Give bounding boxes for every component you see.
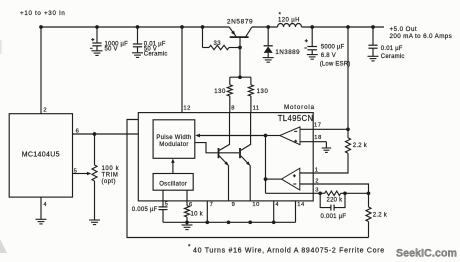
wire: trim top lead — [94, 134, 96, 165]
U2A plus mark — [294, 140, 297, 142]
wire: U2A pin 17 line — [300, 128, 348, 130]
svg-text:SeekIC.com: SeekIC.com — [396, 247, 457, 259]
svg-text:Modulator: Modulator — [159, 142, 188, 148]
junction pin12 drop — [180, 25, 184, 29]
transistor Q1 collector — [246, 27, 252, 36]
svg-text:1: 1 — [315, 168, 318, 174]
capacitor C1 1000uF 50V — [96, 27, 98, 43]
junction C1 — [95, 25, 99, 29]
svg-text:8: 8 — [231, 105, 234, 111]
wire: splitter bar — [230, 76, 251, 78]
svg-text:17: 17 — [314, 122, 322, 128]
transistor Q3 emitter to pin 10 — [241, 156, 250, 166]
wire: node B to node C — [345, 192, 369, 194]
wire: R3 top lead — [250, 77, 252, 85]
svg-text:2: 2 — [315, 178, 318, 184]
node input corner — [39, 25, 43, 29]
scan artifact left edge — [0, 40, 2, 54]
ground under C3 — [307, 54, 318, 56]
wire: R2 top lead — [229, 77, 231, 85]
svg-text:0.001 µF: 0.001 µF — [321, 214, 347, 220]
svg-text:220 k: 220 k — [327, 197, 344, 203]
junction 10k/ground — [185, 220, 189, 224]
wire: PWM output jog to bases — [195, 143, 218, 153]
block: Pulse Width Modulator box — [153, 120, 195, 159]
wire: U2A pin 18 line — [300, 141, 326, 143]
svg-text:0.005 µF: 0.005 µF — [132, 207, 158, 213]
svg-text:0.01 µF: 0.01 µF — [381, 46, 403, 52]
svg-text:(opt): (opt) — [102, 179, 116, 185]
wire: pin 5 lead — [162, 201, 164, 207]
C3 plus sign — [305, 40, 308, 42]
svg-text:Pulse Width: Pulse Width — [156, 135, 191, 141]
node A 220k left — [318, 191, 322, 195]
ground under U1 pin 4 — [36, 218, 47, 220]
wire: comparator bus vertical — [265, 136, 267, 194]
diode D1 1N3889 — [267, 27, 269, 46]
transistor Q1 emitter — [229, 27, 236, 36]
wire: osc pin5 inside — [162, 190, 164, 201]
block: Oscillator box — [153, 174, 193, 191]
svg-text:Oscillator: Oscillator — [159, 181, 187, 187]
U2B plus mark — [293, 175, 296, 177]
transistor Q2 base bar — [218, 148, 220, 158]
wire: bottom ground rail — [163, 221, 296, 223]
svg-text:130: 130 — [257, 89, 269, 95]
ground under pin 18 — [322, 147, 332, 149]
transistor Q2 collector to pin 8 — [219, 113, 229, 151]
capacitor C2 0.01uF 50V ceramic — [137, 27, 139, 44]
wire: rail to TL495 pin 12 — [181, 27, 183, 113]
resistor R2 130 — [227, 85, 232, 96]
wire: U1 pin 6 reference line — [73, 133, 139, 135]
inductor L1 120uH — [278, 24, 302, 28]
svg-text:Ceramic: Ceramic — [381, 54, 405, 60]
junction switch node D1 — [266, 25, 270, 29]
U2A output wire — [266, 135, 280, 137]
ground on bottom rail — [186, 222, 188, 225]
svg-text:2.2 k: 2.2 k — [353, 143, 368, 149]
arrow oscillator to PWM — [172, 161, 174, 174]
wire: base link Q2-Q3 — [219, 152, 240, 154]
svg-text:TRIM: TRIM — [102, 173, 119, 179]
svg-text:TL495CN: TL495CN — [278, 114, 314, 123]
svg-text:10: 10 — [252, 202, 260, 208]
wire: pin 3 line from bus — [266, 192, 325, 194]
wire: R3 bottom lead to pin 11 — [250, 96, 252, 113]
IC U2 TL495CN box — [138, 113, 313, 201]
ground under C1 — [92, 50, 103, 52]
wire: comparator output bus into PWM — [197, 135, 266, 137]
op-amp U2A error amp top — [280, 127, 300, 145]
wire: R6 top lead — [368, 193, 370, 207]
transistor Q1 base bar — [230, 36, 249, 38]
wire: rail segment collector to inductor — [252, 26, 278, 28]
U2B minus mark — [293, 183, 296, 185]
wire: +5V feedback drop — [347, 27, 349, 129]
junction C3 — [310, 25, 314, 29]
svg-text:50 V: 50 V — [105, 47, 118, 53]
scan artifact bottom-left corner — [0, 239, 7, 253]
node base splitter — [238, 75, 242, 79]
wire: R2 bottom lead to pin 8 — [229, 96, 231, 113]
junction pin4 — [272, 220, 276, 224]
svg-text:10 k: 10 k — [191, 212, 204, 218]
svg-text:18: 18 — [314, 135, 322, 141]
svg-text:+10 to +30 In: +10 to +30 In — [20, 10, 66, 17]
svg-text:Ceramic: Ceramic — [144, 52, 168, 58]
resistor R3 130 — [248, 85, 253, 96]
wire: pin 14 stub — [295, 201, 297, 222]
node op2 output junction — [264, 177, 268, 181]
junction pin10 — [248, 220, 252, 224]
svg-text:11: 11 — [253, 105, 260, 111]
svg-text:6: 6 — [189, 202, 192, 208]
svg-text:2: 2 — [43, 107, 46, 113]
node trim top — [93, 132, 97, 136]
C3 minus sign — [304, 47, 307, 49]
svg-text:1N3889: 1N3889 — [275, 49, 300, 56]
svg-text:9: 9 — [232, 202, 235, 208]
svg-text:MC1404U5: MC1404U5 — [22, 151, 60, 158]
svg-text:2.2 k: 2.2 k — [373, 213, 388, 219]
U2A minus mark — [294, 130, 297, 132]
wire: input drop to MC1404U5 pin 2 — [40, 27, 42, 114]
wire: R4 top lead — [347, 129, 349, 138]
svg-text:2N5879: 2N5879 — [227, 19, 253, 26]
wire: R6 bottom to return line — [368, 222, 370, 238]
resistor R6 2.2k — [366, 207, 371, 222]
U2B output wire — [266, 178, 282, 180]
IC U1 MC1404U5 box — [9, 114, 72, 197]
wire: R1 left lead — [203, 47, 210, 49]
svg-text:40 Turns #16 Wire, Arnold A 89: 40 Turns #16 Wire, Arnold A 894075-2 Fer… — [193, 247, 385, 254]
wire: U1 pin 4 to ground — [40, 197, 42, 219]
svg-text:33: 33 — [214, 41, 222, 47]
ground under C4 — [368, 55, 379, 57]
svg-text:5: 5 — [165, 202, 168, 208]
wire: Q1 base down — [239, 38, 241, 77]
op-amp U2B error amp bottom — [282, 168, 300, 190]
wire: pin 6 lead — [186, 201, 188, 206]
svg-text:Motorola: Motorola — [284, 104, 315, 111]
potentiometer R8 100k TRIM — [92, 165, 97, 181]
resistor R7 10k — [185, 206, 190, 217]
capacitor C3 5000uF 6.8V low ESR — [311, 27, 313, 47]
wire: R5 right to node B — [341, 192, 345, 194]
svg-text:100 k: 100 k — [102, 166, 120, 172]
node pin17/feedback — [346, 127, 350, 131]
junction C4 — [371, 25, 375, 29]
wire: R4 bottom to pin 1 — [300, 153, 348, 173]
wire: osc pin6 inside — [186, 190, 188, 201]
wire: pin 4 stub — [273, 201, 275, 222]
wire: long feedback return line — [127, 120, 369, 238]
node comparator bus top — [264, 134, 268, 138]
wire: rail drop to R1 — [202, 27, 204, 48]
node B 220k right — [343, 191, 347, 195]
svg-text:6.8 V: 6.8 V — [321, 53, 336, 59]
resistor R4 2.2k — [346, 138, 351, 153]
wire: +10-30V input rail left segment — [41, 26, 229, 28]
junction feedback drop — [346, 25, 350, 29]
capacitor C5 0.001uF loop — [320, 193, 331, 207]
svg-text:5000 µF: 5000 µF — [321, 44, 345, 50]
wire: R1 right lead to base node — [229, 47, 240, 49]
ground under C2 — [132, 52, 143, 54]
C1 minus sign — [90, 47, 93, 49]
svg-text:120 µH: 120 µH — [278, 18, 300, 24]
wire: U2B pin 2 line — [300, 184, 369, 193]
svg-text:14: 14 — [297, 202, 305, 208]
trimmer wiper arrow from U1 pin 5 — [73, 173, 89, 175]
ground under D1 — [263, 57, 274, 59]
capacitor C6 0.005uF — [159, 206, 168, 208]
svg-text:+5.0 Out: +5.0 Out — [390, 26, 418, 33]
svg-text:(Low ESR): (Low ESR) — [320, 62, 351, 68]
node base/R1 — [238, 46, 242, 50]
junction pin9 — [227, 220, 231, 224]
junction pin7 — [205, 220, 209, 224]
wire: trim bottom lead — [94, 181, 96, 220]
ground under trimmer — [89, 219, 100, 221]
svg-text:200 mA to 6.0 Amps: 200 mA to 6.0 Amps — [390, 33, 453, 40]
C1 plus sign — [91, 39, 94, 41]
transistor Q3 collector to pin 11 — [241, 113, 251, 151]
transistor Q2 emitter to pin 9 — [219, 156, 228, 166]
junction R1 drop — [201, 25, 205, 29]
resistor R1 33 — [209, 45, 229, 49]
transistor Q3 base bar — [239, 148, 241, 158]
wire: rail segment inductor to output — [302, 26, 385, 28]
junction C2 — [136, 25, 140, 29]
capacitor C4 0.01uF ceramic output — [372, 27, 374, 45]
wire: pin 7 stub — [206, 201, 208, 222]
svg-text:12: 12 — [183, 105, 191, 111]
svg-text:3: 3 — [315, 188, 318, 194]
svg-text:7: 7 — [210, 202, 213, 208]
node C pin2 junction — [367, 191, 371, 195]
resistor R5 220k — [325, 191, 341, 195]
svg-text:130: 130 — [214, 89, 226, 95]
